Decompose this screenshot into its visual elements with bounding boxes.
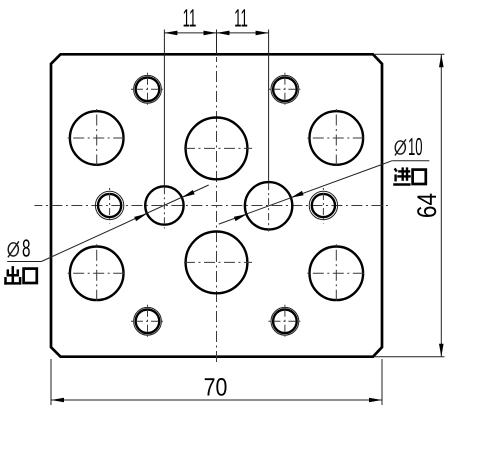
vertical centerline of plate xyxy=(216,57,218,366)
dimension line 11 right xyxy=(217,31,269,36)
label diam 10 xyxy=(395,134,423,161)
leader line diam 8 xyxy=(41,185,208,262)
threaded hole top-right xyxy=(267,72,302,107)
label outlet (chu kou) xyxy=(4,266,37,285)
extension line bottom-right xyxy=(381,359,383,405)
arrow at lower-left edge of hole diam 8 xyxy=(134,214,147,222)
extension line right (above hole diam 10) xyxy=(268,30,270,183)
threaded hole top-left xyxy=(130,72,165,107)
extension line left (above hole diam 8) xyxy=(163,30,165,187)
arrow at upper-right edge of hole diam 10 xyxy=(291,191,304,198)
svg-text:64: 64 xyxy=(412,193,442,218)
leader line diam 10 xyxy=(219,161,392,224)
horizontal centerline of plate xyxy=(34,205,388,207)
svg-text:70: 70 xyxy=(204,374,228,402)
extension line bottom-left xyxy=(50,359,52,405)
label inlet (jin kou) xyxy=(393,167,426,184)
svg-text:10: 10 xyxy=(408,134,423,161)
large hole bottom-right xyxy=(305,242,367,304)
threaded hole bottom-left xyxy=(130,304,165,339)
threaded hole middle-left xyxy=(95,188,123,224)
extension line center (plate axis) xyxy=(216,30,218,55)
extension line top-right xyxy=(375,53,445,55)
large hole top-right xyxy=(305,107,367,169)
svg-text:8: 8 xyxy=(22,236,31,263)
svg-text:11: 11 xyxy=(234,5,248,33)
plate outline (70 x 64 subplate, chamfered corners) xyxy=(51,54,382,356)
threaded hole bottom-right xyxy=(267,304,302,339)
svg-text:11: 11 xyxy=(183,5,197,33)
leader underline diam 8 xyxy=(7,261,41,263)
dimension line 11 left xyxy=(164,31,216,36)
port hole diam 8 (outlet) xyxy=(145,186,183,228)
threaded hole middle-right xyxy=(309,188,337,224)
port hole diam 10 (inlet) xyxy=(245,182,292,231)
big center hole top xyxy=(181,117,252,179)
leader underline diam 10 xyxy=(392,160,429,162)
large hole top-left xyxy=(66,107,128,169)
dimension line 64 xyxy=(439,54,444,356)
large hole bottom-left xyxy=(66,242,128,304)
big center hole bottom xyxy=(181,232,252,294)
arrow at upper-right edge of hole diam 8 xyxy=(182,190,195,198)
label diam 8 xyxy=(8,236,31,263)
extension line bottom-right corner xyxy=(374,356,445,358)
dimension line 70 xyxy=(51,398,382,403)
arrow at lower-left edge of hole diam 10 xyxy=(234,214,247,221)
